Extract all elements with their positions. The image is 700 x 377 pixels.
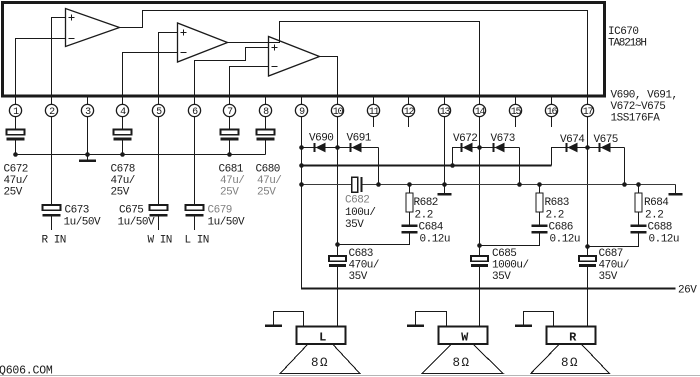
svg-text:12: 12 — [404, 107, 415, 118]
pin 17 — [581, 104, 593, 118]
speaker L box — [297, 327, 346, 345]
wire C672 to bus — [15, 140, 17, 154]
svg-text:V673: V673 — [491, 133, 515, 145]
svg-text:11: 11 — [369, 107, 380, 118]
capacitor C678 — [114, 130, 132, 135]
diode V673 — [493, 143, 495, 152]
capacitor C679 — [186, 205, 204, 217]
resistor R684 — [635, 185, 642, 225]
wire N1 output to pin17 — [120, 11, 588, 105]
svg-text:15: 15 — [511, 107, 522, 118]
resistor R682 — [406, 185, 413, 225]
svg-text:2.2: 2.2 — [546, 210, 564, 222]
capacitor C675 — [150, 205, 168, 217]
capacitor C683 — [329, 256, 346, 261]
capacitor C680 — [257, 130, 275, 135]
pin 12 stub — [408, 96, 410, 105]
speaker R ground hook — [524, 312, 554, 327]
diode V674 — [566, 143, 568, 152]
svg-text:C687: C687 — [599, 248, 623, 260]
junction V691 return — [376, 182, 381, 187]
pin 11 open stub — [373, 117, 375, 127]
label R682 — [414, 197, 438, 222]
junction R683 top — [537, 182, 542, 187]
diode V690 — [314, 143, 316, 152]
svg-text:C685: C685 — [492, 248, 516, 260]
svg-text:R IN: R IN — [42, 235, 66, 247]
svg-text:35V: 35V — [349, 271, 368, 283]
label diode group — [611, 90, 678, 125]
label C684 — [419, 222, 451, 246]
pin 16 stub — [551, 96, 553, 105]
pin 6 — [188, 104, 200, 118]
wire pin10 down — [337, 117, 339, 256]
svg-text:470u/: 470u/ — [349, 260, 380, 272]
svg-text:10: 10 — [333, 107, 344, 118]
junction pin10 diode row — [335, 145, 340, 150]
wire supply to V674 row — [552, 148, 625, 166]
wire pin4 to C678 — [122, 117, 124, 130]
junction V672 supply line — [450, 163, 455, 168]
junction pin17 diode row — [585, 145, 590, 150]
speaker W cone — [422, 344, 503, 373]
svg-text:1u/50V: 1u/50V — [64, 217, 102, 229]
pin 13 stub — [444, 96, 446, 105]
label C679 — [208, 205, 246, 229]
pin 3 stub — [87, 96, 89, 105]
label C685 — [492, 248, 529, 283]
pin 10 stub — [337, 96, 339, 105]
svg-text:V690: V690 — [309, 133, 333, 145]
label C672 — [4, 164, 28, 199]
svg-text:47u/: 47u/ — [111, 175, 135, 187]
pin 8 — [259, 104, 271, 118]
wire C688 to pin17 line — [588, 233, 639, 246]
capacitor C684 — [402, 225, 418, 227]
svg-text:W IN: W IN — [148, 235, 172, 247]
wire diode row pins9-10 — [302, 147, 379, 149]
label C678 — [111, 164, 135, 199]
svg-text:0.12u: 0.12u — [550, 234, 581, 246]
wire C679 stub — [194, 217, 196, 230]
svg-text:25V: 25V — [111, 187, 130, 199]
wire C687 to speaker R — [587, 267, 589, 327]
junction pin7 bus — [227, 152, 232, 157]
wire N3 output to pin10 — [320, 57, 338, 105]
svg-text:14: 14 — [475, 107, 486, 118]
svg-text:26V: 26V — [678, 285, 697, 297]
pin 15 open stub — [515, 117, 517, 127]
speaker R box — [547, 327, 596, 345]
svg-text:V672~V675: V672~V675 — [611, 101, 666, 113]
pin 3 — [81, 104, 93, 118]
svg-text:TA8218H: TA8218H — [608, 38, 646, 50]
svg-text:470u/: 470u/ — [599, 260, 630, 272]
svg-text:V672: V672 — [453, 133, 477, 145]
capacitor C682 — [352, 177, 363, 192]
pin 14 — [473, 104, 485, 118]
label R683 — [545, 197, 569, 222]
speaker W ground hook — [416, 312, 447, 327]
pin 16 open stub — [551, 117, 553, 127]
pin 7 — [223, 104, 235, 118]
junction pin9 feedback line — [299, 182, 304, 187]
svg-text:100u/: 100u/ — [345, 207, 376, 219]
svg-text:R682: R682 — [414, 197, 438, 209]
label C683 — [349, 248, 380, 283]
pin 5 — [152, 104, 164, 118]
wire C680 to bus — [265, 140, 267, 154]
label C681 — [219, 164, 245, 199]
wire feedback line right — [445, 184, 676, 186]
wire pin2 to N1 + input — [52, 18, 66, 105]
pin 1 — [9, 104, 21, 118]
junction pin4 bus — [120, 152, 125, 157]
svg-text:C680: C680 — [256, 164, 280, 176]
wire pin8 to C680 — [265, 117, 267, 130]
junction pin13 feedback — [442, 182, 447, 187]
wire pin9 down to 26V rail — [301, 117, 303, 290]
pin 11 stub — [373, 96, 375, 105]
ground bus wire — [16, 154, 266, 156]
wire pin4 to N2 - input — [123, 53, 178, 105]
junction V673 return — [517, 182, 522, 187]
wire C685 to speaker W — [479, 267, 481, 327]
capacitor C673 — [43, 205, 61, 217]
svg-text:L IN: L IN — [185, 235, 209, 247]
junction pin3 bus — [85, 152, 90, 157]
junction C686 pin14 — [477, 243, 482, 248]
pin 11 — [367, 104, 379, 118]
svg-text:R683: R683 — [545, 197, 569, 209]
pin 13 — [438, 104, 450, 118]
label C687 — [599, 248, 630, 283]
capacitor C681 — [221, 130, 239, 135]
pin 9 stub — [301, 96, 303, 105]
label C686 — [549, 222, 581, 246]
svg-text:0.12u: 0.12u — [420, 234, 451, 246]
svg-text:25V: 25V — [4, 187, 23, 199]
pin 8 stub — [265, 96, 267, 105]
wire C675 stub — [158, 217, 160, 230]
svg-text:C678: C678 — [111, 164, 135, 176]
capacitor C685 — [471, 256, 488, 261]
wire pin2 to C673 — [51, 117, 53, 205]
svg-text:L: L — [319, 331, 326, 345]
wire V675 to feedback line — [624, 148, 626, 185]
label C682 — [345, 195, 376, 232]
junction pin14 diode row — [477, 145, 482, 150]
wire N2 output to pin14 — [228, 22, 480, 105]
wire pin14 down — [479, 117, 481, 256]
pin 15 stub — [515, 96, 517, 105]
wire V673 to feedback line — [519, 148, 521, 185]
junction C688 pin17 — [585, 244, 590, 249]
svg-text:1u/50V: 1u/50V — [208, 217, 246, 229]
wire V691 to feedback line — [378, 148, 380, 185]
svg-text:C688: C688 — [648, 222, 672, 234]
wire C683 to speaker L — [337, 267, 339, 327]
svg-text:1u/50V: 1u/50V — [118, 217, 156, 229]
diode V691 — [350, 143, 352, 152]
junction R682 top — [407, 182, 412, 187]
svg-text:1000u/: 1000u/ — [492, 260, 529, 272]
label C680 — [256, 164, 282, 199]
wire C682 to pin13 — [363, 184, 445, 186]
junction pin9 supply line — [299, 163, 304, 168]
wire C678 to bus — [122, 140, 124, 154]
pin 12 open stub — [408, 117, 410, 127]
op-amp N1 (R channel) — [66, 9, 120, 47]
svg-text:35V: 35V — [492, 271, 511, 283]
svg-text:V690, V691,: V690, V691, — [611, 90, 678, 102]
supply filter line — [302, 165, 552, 167]
capacitor C688 — [631, 225, 647, 227]
op-amp N3 (L channel) — [269, 37, 320, 77]
wire pin6 to C679 — [194, 117, 196, 205]
capacitor C672 — [7, 130, 25, 135]
svg-text:R684: R684 — [644, 197, 669, 209]
svg-text:V675: V675 — [594, 134, 618, 146]
pin 12 — [402, 104, 414, 118]
wire pin13 down — [444, 117, 446, 185]
wire C673 stub — [51, 217, 53, 230]
ground at feedback end — [675, 185, 677, 194]
svg-text:C682: C682 — [345, 195, 369, 207]
svg-text:8Ω: 8Ω — [453, 356, 471, 370]
wire pin6 to N3 + input — [195, 48, 269, 105]
label IC670 — [608, 26, 646, 50]
wire pin7 to C681 — [229, 117, 231, 130]
svg-text:2.2: 2.2 — [415, 210, 433, 222]
svg-text:47u/: 47u/ — [220, 175, 244, 187]
wire pin1 to C672 — [15, 117, 17, 130]
label C673 — [64, 205, 102, 229]
junction V675 return — [622, 182, 627, 187]
junction pin9 diode row — [299, 145, 304, 150]
svg-text:16: 16 — [547, 107, 558, 118]
speaker L cone — [280, 344, 359, 373]
junction pin1 bus — [13, 152, 18, 157]
svg-text:C686: C686 — [549, 222, 573, 234]
svg-text:V691: V691 — [347, 133, 372, 145]
svg-text:V674: V674 — [560, 134, 585, 146]
wire pin5 to N2 + input — [159, 33, 178, 105]
wire pin7 to N3 - input — [230, 67, 269, 105]
op-amp N2 (W channel) — [178, 23, 228, 62]
svg-text:C683: C683 — [349, 248, 373, 260]
label C688 — [648, 222, 680, 246]
speaker W box — [439, 327, 488, 345]
svg-text:C684: C684 — [419, 222, 444, 234]
wire pin9 to C682 — [302, 184, 352, 186]
wire pin5 to C675 — [158, 117, 160, 205]
svg-text:IC670: IC670 — [608, 26, 639, 38]
svg-text:35V: 35V — [345, 219, 364, 231]
wire pin1 to N1 - input — [16, 39, 66, 105]
pin 9 — [295, 104, 307, 118]
bottom border — [0, 375, 700, 377]
junction R684 top — [636, 182, 641, 187]
pin 16 — [545, 104, 557, 118]
svg-text:2.2: 2.2 — [645, 210, 663, 222]
svg-text:35V: 35V — [599, 271, 618, 283]
IC670 outline box — [3, 3, 605, 97]
svg-text:8Ω: 8Ω — [561, 356, 579, 370]
diode V675 — [599, 143, 601, 152]
svg-text:17: 17 — [583, 107, 594, 118]
svg-text:47u/: 47u/ — [4, 175, 28, 187]
26V supply rail — [302, 288, 676, 290]
capacitor C687 — [579, 256, 596, 261]
speaker R cone — [531, 344, 609, 373]
svg-text:C679: C679 — [208, 205, 232, 217]
ground at pin3 — [87, 155, 89, 160]
wire C686 to pin14 line — [480, 233, 540, 245]
junction C684 pin10 — [335, 242, 340, 247]
wire C684 to pin10 line — [338, 233, 410, 244]
wire C681 to bus — [229, 140, 231, 154]
diode V672 — [461, 143, 463, 152]
svg-text:47u/: 47u/ — [257, 175, 281, 187]
pin 15 — [509, 104, 521, 118]
svg-text:8Ω: 8Ω — [311, 356, 329, 370]
ground at pin13 — [444, 185, 446, 194]
speaker L ground hook — [274, 312, 304, 327]
svg-text:C681: C681 — [219, 164, 244, 176]
wire pin3 to bus — [87, 117, 89, 155]
label R684 — [644, 197, 669, 222]
svg-text:13: 13 — [440, 107, 451, 118]
pin 10 — [331, 104, 343, 118]
svg-text:C675: C675 — [119, 205, 143, 217]
pin 2 — [45, 104, 57, 118]
resistor R683 — [536, 185, 543, 225]
capacitor C686 — [532, 225, 548, 227]
svg-text:25V: 25V — [220, 187, 239, 199]
svg-text:1SS176FA: 1SS176FA — [611, 113, 661, 125]
wire V672 left drop — [453, 148, 520, 166]
pin 4 — [116, 104, 128, 118]
label C675 — [118, 205, 156, 229]
svg-text:C673: C673 — [65, 205, 89, 217]
svg-text:0.12u: 0.12u — [649, 234, 680, 246]
svg-text:25V: 25V — [257, 187, 276, 199]
svg-text:C672: C672 — [4, 164, 28, 176]
wire pin17 down — [587, 117, 589, 256]
